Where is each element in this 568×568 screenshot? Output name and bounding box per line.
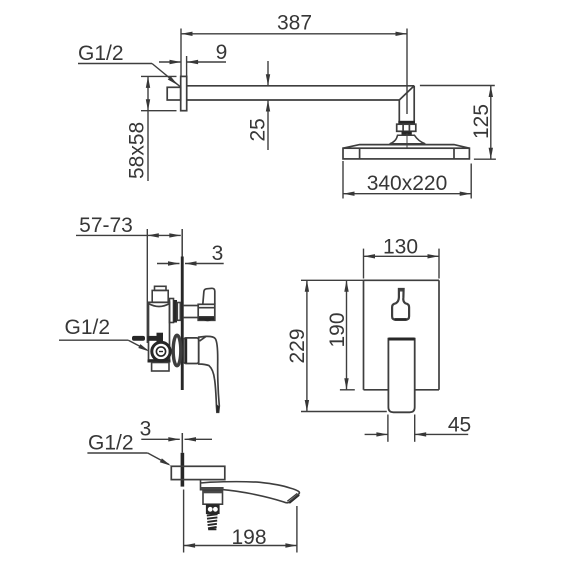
handle escutcheon side — [184, 338, 199, 364]
spout valve block — [203, 491, 223, 504]
svg-text:190: 190 — [326, 312, 349, 347]
dimension 3 middle — [157, 242, 224, 266]
shower arm — [187, 86, 415, 100]
elbow lock ring — [398, 121, 415, 124]
dimension 45 — [365, 414, 472, 442]
valve body — [148, 302, 171, 362]
wall line middle — [181, 229, 184, 390]
dimension 198 — [184, 490, 297, 553]
handle front view — [388, 338, 414, 413]
center line — [406, 133, 408, 148]
spout hex nut — [206, 504, 220, 514]
svg-text:G1/2: G1/2 — [78, 42, 124, 65]
spout body — [171, 466, 225, 479]
shower arm wall flange — [181, 76, 187, 110]
label G1/2 top — [78, 42, 181, 87]
shower arm elbow — [399, 86, 414, 122]
svg-text:G1/2: G1/2 — [65, 316, 111, 339]
dimension 340x220 — [343, 161, 471, 199]
shower arm nipple — [167, 87, 181, 100]
dimension 25 — [247, 61, 271, 150]
spout base shading — [201, 487, 224, 490]
handle side view — [199, 336, 220, 412]
extension line top — [301, 279, 364, 281]
svg-text:229: 229 — [286, 328, 309, 363]
diverter knob side view — [183, 288, 215, 321]
trim plate — [364, 280, 440, 390]
diverter stem — [170, 299, 181, 323]
svg-text:45: 45 — [448, 414, 471, 437]
inlet pipe — [132, 333, 163, 344]
dimension 190 — [326, 280, 355, 390]
dimension 3 bottom — [140, 418, 212, 442]
connector nut — [397, 124, 416, 131]
cartridge — [173, 335, 181, 366]
svg-text:125: 125 — [470, 104, 493, 139]
connector collar — [402, 131, 412, 135]
spout thread — [207, 514, 218, 529]
spout tube — [201, 480, 300, 504]
label G1/2 middle — [59, 316, 151, 353]
valve top cap — [155, 286, 167, 290]
valve top port — [152, 290, 168, 302]
dimension 130 — [364, 235, 440, 278]
dimension 125 — [420, 86, 496, 160]
dimension 9 — [159, 41, 227, 76]
svg-text:G1/2: G1/2 — [88, 432, 134, 455]
valve bracket — [152, 363, 169, 372]
svg-text:340x220: 340x220 — [367, 172, 448, 195]
dimension 387 — [181, 12, 407, 115]
svg-text:387: 387 — [277, 12, 312, 35]
diverter knob front view — [392, 289, 409, 320]
wall line bottom — [181, 433, 185, 487]
head cone — [390, 135, 426, 144]
shower head — [343, 145, 469, 159]
inlet circle — [152, 342, 170, 360]
label G1/2 bottom — [87, 432, 172, 468]
dimension 58x58 — [126, 76, 177, 181]
svg-text:130: 130 — [383, 235, 418, 258]
svg-text:3: 3 — [212, 242, 224, 265]
svg-text:9: 9 — [216, 41, 228, 64]
svg-text:3: 3 — [140, 418, 152, 441]
svg-text:58x58: 58x58 — [126, 122, 149, 179]
svg-text:57-73: 57-73 — [79, 214, 133, 237]
dimension 229 — [286, 280, 387, 411]
dimension 57-73 — [76, 214, 181, 343]
svg-text:25: 25 — [247, 118, 270, 141]
